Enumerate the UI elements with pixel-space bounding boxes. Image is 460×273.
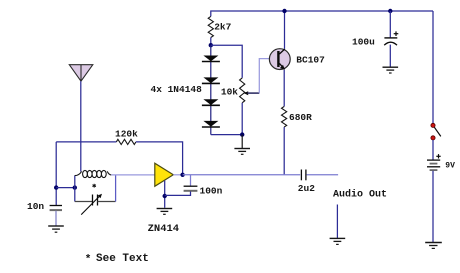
svg-text:10n: 10n: [27, 201, 44, 212]
transistor Q1 BC107: [269, 49, 290, 70]
resistor R2 120k: [116, 139, 136, 144]
capacitor C1 10n: [50, 206, 62, 211]
node junction 100n/gnd: [163, 194, 167, 198]
svg-text:680R: 680R: [289, 112, 312, 123]
wire emitter down: [283, 70, 285, 107]
svg-text:120k: 120k: [115, 129, 138, 140]
wire tank left vertical: [74, 175, 76, 201]
svg-text:9V: 9V: [445, 162, 455, 171]
wire 680R bottom to audio line: [283, 127, 285, 175]
inductor L1 coil: [75, 170, 112, 177]
svg-text:4x 1N4148: 4x 1N4148: [151, 84, 203, 95]
node junction collector/rail: [282, 9, 286, 13]
wire tank bottom left segment: [75, 201, 93, 203]
wire diode chain bottom to pot bottom: [211, 134, 242, 136]
wire 2u2 right / audio out: [307, 174, 339, 176]
svg-text:100u: 100u: [352, 36, 375, 47]
wire 120k left to left vertical: [56, 141, 116, 143]
resistor R3 680R: [282, 107, 287, 128]
node junction output: [180, 173, 184, 177]
ground audio out: [330, 238, 346, 244]
IC U1 ZN414 amplifier triangle: [155, 163, 174, 186]
svg-text:See Text: See Text: [96, 253, 149, 265]
wire audio line: [183, 174, 301, 176]
wire 120k right to feedback corner: [136, 142, 183, 175]
svg-text:*: *: [85, 254, 92, 266]
wire ZN414 ground pin: [164, 181, 166, 208]
svg-text:ZN414: ZN414: [148, 223, 180, 235]
ground 100u: [383, 67, 399, 73]
svg-text:10k: 10k: [221, 87, 238, 98]
wire battery to ground: [432, 171, 434, 243]
wire diode chain vertical: [210, 45, 212, 134]
diode D1 1N4148: [202, 56, 220, 62]
wire wiper to transistor base: [248, 92, 260, 94]
wire left vertical down to 10n: [55, 142, 57, 206]
diode D3 1N4148: [202, 99, 220, 105]
wire coil to ZN414 input: [111, 174, 155, 176]
ground diodes/pot: [234, 149, 250, 155]
node junction pot bottom: [240, 132, 244, 136]
wire junction to pot top: [211, 45, 242, 78]
wire top supply rail: [211, 11, 433, 16]
diode D4 1N4148: [202, 121, 220, 127]
capacitor C4 100u electrolytic: [384, 11, 398, 67]
svg-text:BC107: BC107: [296, 54, 325, 65]
wire stub to ground: [241, 135, 243, 149]
wire right battery branch upper: [432, 11, 434, 124]
switch S1: [431, 123, 441, 140]
label asterisk in tank: [93, 184, 96, 188]
ground 10n: [48, 226, 64, 232]
capacitor C3 2u2: [301, 170, 306, 181]
battery B1 9V: [427, 154, 441, 170]
wire ZN414 output to junction: [173, 174, 182, 176]
antenna: [69, 65, 93, 82]
wire 2k7 bottom lead: [210, 38, 212, 46]
ground ZN414: [157, 209, 173, 215]
svg-text:2k7: 2k7: [214, 22, 231, 33]
wire tank right vertical: [115, 175, 117, 202]
wire audio ground stub: [336, 205, 338, 239]
svg-text:100n: 100n: [200, 185, 223, 196]
node junction 2k7/diodes: [209, 43, 213, 47]
svg-text:2u2: 2u2: [298, 183, 315, 194]
wiper arrow of 10k: [244, 91, 249, 95]
resistor R1 2k7: [208, 16, 213, 37]
wire tank bottom right segment: [98, 201, 116, 203]
node junction 100u/rail: [388, 9, 392, 13]
wire collector to rail: [284, 11, 286, 49]
diode D2 1N4148: [202, 77, 220, 83]
svg-text:Audio Out: Audio Out: [333, 189, 387, 201]
wire antenna down to coil: [80, 81, 82, 171]
wire switch to battery: [432, 140, 434, 160]
wire pot bottom: [241, 103, 243, 135]
capacitor C2 100n: [165, 175, 198, 196]
node junction left vertical: [54, 185, 58, 189]
ground battery: [425, 243, 442, 249]
wire cross connector: [56, 187, 75, 189]
potentiometer VR1 10k: [240, 78, 245, 103]
variable capacitor VC1: [81, 194, 102, 215]
node junction tank left: [73, 185, 77, 189]
wire 10n bottom lead: [55, 211, 57, 226]
